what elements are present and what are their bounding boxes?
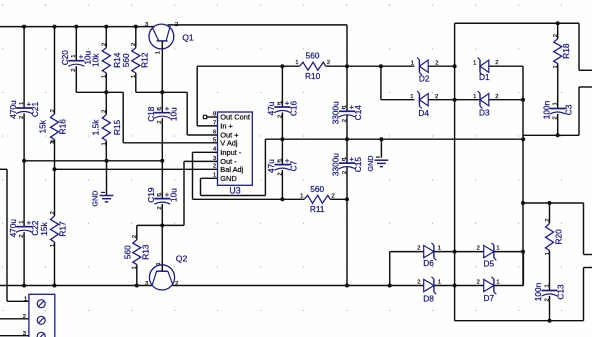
junction y92.3 / R14 bottom R15 top xyxy=(104,90,108,94)
resistor R17 xyxy=(51,216,59,242)
svg-text:2: 2 xyxy=(132,235,138,238)
resistor R16 xyxy=(51,114,59,140)
svg-text:C21: C21 xyxy=(30,102,40,118)
svg-text:1: 1 xyxy=(496,280,499,286)
resistor R14 xyxy=(102,48,110,73)
svg-text:D5: D5 xyxy=(483,259,494,269)
svg-text:1: 1 xyxy=(71,54,77,57)
resistor R10 xyxy=(300,62,326,70)
svg-text:1: 1 xyxy=(545,252,551,255)
svg-text:1: 1 xyxy=(438,246,441,252)
svg-text:1: 1 xyxy=(102,142,108,145)
svg-text:2: 2 xyxy=(277,115,283,118)
svg-text:2: 2 xyxy=(545,219,551,222)
svg-text:1: 1 xyxy=(213,173,216,179)
svg-text:R12: R12 xyxy=(140,52,150,68)
svg-text:2: 2 xyxy=(157,206,163,209)
junction bottom rail / C22 xyxy=(22,284,26,288)
wire C20/R14 row y=92.3 xyxy=(76,91,123,93)
junction y92.3 / Q1 emitter column xyxy=(160,90,164,94)
wire Input- line y=199.3 to R11 xyxy=(193,198,305,200)
svg-text:GND: GND xyxy=(90,191,99,207)
junction Bal-Adj line / R16-R17 column xyxy=(53,167,57,171)
wire top rail left segment xyxy=(0,26,154,28)
junction bottom rail / R17 xyxy=(53,284,57,288)
svg-text:1: 1 xyxy=(102,75,108,78)
wire R12 to Q1 emitter row y=92.3 xyxy=(136,91,187,93)
junction bottom rail / R13 xyxy=(135,284,139,288)
svg-text:1: 1 xyxy=(473,60,476,66)
svg-text:R15: R15 xyxy=(112,120,122,136)
resistor R18 xyxy=(554,39,562,64)
svg-text:1: 1 xyxy=(50,244,56,247)
svg-text:1: 1 xyxy=(157,106,163,109)
wire ground symbol drop xyxy=(380,139,382,158)
junction y23.25 / R18 top xyxy=(556,21,560,25)
svg-text:2: 2 xyxy=(175,281,178,287)
svg-text:2: 2 xyxy=(477,246,480,252)
svg-text:C7: C7 xyxy=(288,160,298,171)
svg-text:10u: 10u xyxy=(168,107,178,121)
svg-text:1: 1 xyxy=(132,266,138,269)
transistor Q2 xyxy=(149,265,174,290)
junction mid rail / C18-C19 xyxy=(160,159,164,163)
svg-text:1: 1 xyxy=(553,102,559,105)
diode D3 xyxy=(479,93,481,106)
svg-text:2: 2 xyxy=(327,60,330,66)
svg-text:5: 5 xyxy=(213,137,216,143)
wire bottom rail right of Q2 (D8 row) xyxy=(172,285,423,287)
svg-text:3: 3 xyxy=(23,331,26,337)
svg-text:470u: 470u xyxy=(8,100,18,119)
svg-text:V Adj: V Adj xyxy=(220,139,238,148)
capacitor C14 xyxy=(339,110,355,112)
svg-text:C19: C19 xyxy=(146,187,156,203)
wire connector pin2 xyxy=(0,318,29,320)
svg-text:D3: D3 xyxy=(479,107,490,117)
wire right-edge stub (bottom channel lower) xyxy=(584,267,592,269)
diode D5 xyxy=(493,245,495,258)
svg-text:1: 1 xyxy=(19,220,25,223)
wire vertical x=523 (right main column) xyxy=(522,66,524,285)
svg-text:6: 6 xyxy=(213,129,216,135)
junction top rail / C20 xyxy=(74,25,78,29)
svg-text:10u: 10u xyxy=(168,188,178,202)
svg-text:C22: C22 xyxy=(30,220,40,236)
wire D6 row y=251.6 xyxy=(390,251,424,253)
svg-text:2: 2 xyxy=(277,172,283,175)
transistor Q1 xyxy=(149,24,174,49)
junction GND row / C16 bottom xyxy=(280,137,284,141)
svg-text:1: 1 xyxy=(473,94,476,100)
junction top rail / R16 xyxy=(53,25,57,29)
svg-text:2: 2 xyxy=(495,60,498,66)
wire C20 column x=76.3 xyxy=(75,27,77,61)
wire right-edge stub lower / C3 bottom line xyxy=(579,86,592,88)
svg-text:1.5k: 1.5k xyxy=(91,119,101,136)
wire R16/R17 column x=54.5 xyxy=(54,27,56,114)
wire R20-C13 branch xyxy=(549,203,551,223)
resistor R12 xyxy=(132,48,140,73)
U3 pin 8 no-connect square xyxy=(203,115,206,118)
junction mid rail / C21-C22 xyxy=(22,159,26,163)
junction D4 row / x454.6 xyxy=(453,98,457,102)
capacitor C19 xyxy=(154,198,170,200)
capacitor C21 xyxy=(16,107,32,109)
svg-text:Q1: Q1 xyxy=(182,33,194,43)
junction x347 / bottom rail xyxy=(345,284,349,288)
svg-text:2: 2 xyxy=(19,116,25,119)
svg-text:3: 3 xyxy=(213,156,216,162)
svg-text:C18: C18 xyxy=(146,106,156,122)
capacitor C15 xyxy=(339,162,355,164)
junction Input- line / C7 bottom xyxy=(280,197,284,201)
wire U3 pin1 stub and GND loop xyxy=(201,177,218,179)
svg-text:470u: 470u xyxy=(8,219,18,238)
svg-text:2: 2 xyxy=(553,34,559,37)
wire U3 pin6 riser xyxy=(186,92,188,135)
wire U3 pin4 drop x=192.5 xyxy=(192,152,194,199)
junction x347 / GND net row xyxy=(345,137,349,141)
svg-text:1: 1 xyxy=(157,192,163,195)
junction bottom rail / D6 drop xyxy=(388,284,392,288)
wire V-Adj drop x=123.2 xyxy=(122,92,124,143)
wire connector pin3 xyxy=(0,335,29,337)
capacitor C16 xyxy=(274,106,290,108)
svg-text:2: 2 xyxy=(23,314,26,320)
junction x454.6 / D6 row xyxy=(453,250,457,254)
diode D1 xyxy=(479,60,481,73)
junction R20 row / R20 top xyxy=(548,201,552,205)
svg-text:GND: GND xyxy=(366,156,375,172)
wire D4 to D3 xyxy=(428,99,479,101)
capacitor C22 xyxy=(16,226,32,228)
wire R12 column xyxy=(135,27,137,48)
svg-text:1: 1 xyxy=(342,157,348,160)
svg-text:560: 560 xyxy=(310,184,324,194)
junction mid rail / R15-ground xyxy=(105,159,109,163)
resistor R11 xyxy=(304,195,330,203)
wire Out- line y=225.4 xyxy=(137,224,184,226)
wire Q1 emitter / C18 / C19 column x=162.3 xyxy=(161,49,163,113)
svg-text:1: 1 xyxy=(411,60,414,66)
wire D7 right riser to D5 xyxy=(522,252,524,286)
resistor R13 xyxy=(133,240,141,265)
svg-text:1: 1 xyxy=(19,102,25,105)
svg-text:Input -: Input - xyxy=(220,148,241,157)
junction GND row / x523 xyxy=(521,137,525,141)
svg-text:R16: R16 xyxy=(58,119,68,135)
wire R18 branch xyxy=(557,23,559,39)
diode D2 xyxy=(418,60,420,73)
junction GND row / ground symbol drop xyxy=(379,137,383,141)
wire mid rail y=160.8 (GND rail) xyxy=(24,160,162,162)
wire C21/C22 column x=24.1 xyxy=(23,27,25,108)
svg-text:D4: D4 xyxy=(418,108,429,118)
diode D6 xyxy=(433,245,435,258)
junction C3 bottom line / R18-C3 column xyxy=(556,133,560,137)
svg-text:2: 2 xyxy=(71,68,77,71)
wire R14 column xyxy=(105,27,107,48)
wire R15 column xyxy=(105,92,107,114)
svg-text:D6: D6 xyxy=(423,258,434,268)
svg-text:D1: D1 xyxy=(479,72,490,82)
svg-text:Q2: Q2 xyxy=(176,253,188,263)
svg-text:2: 2 xyxy=(417,246,420,252)
svg-text:GND: GND xyxy=(220,174,236,183)
svg-text:1: 1 xyxy=(277,158,283,161)
svg-text:2: 2 xyxy=(157,120,163,123)
svg-text:2: 2 xyxy=(544,298,550,301)
resistor R15 xyxy=(102,115,110,141)
junction x454.6 / bottom rail xyxy=(453,284,457,288)
capacitor C7 xyxy=(274,164,290,166)
wire U3 pin3 drop x=184 xyxy=(183,161,185,225)
svg-text:2: 2 xyxy=(175,22,178,28)
svg-text:560: 560 xyxy=(121,53,131,67)
svg-text:D2: D2 xyxy=(419,74,430,84)
capacitor C3 xyxy=(550,108,566,110)
wire U3 pin7 riser xyxy=(196,66,198,126)
svg-text:2: 2 xyxy=(342,119,348,122)
svg-text:47u: 47u xyxy=(266,159,276,173)
svg-text:2: 2 xyxy=(435,94,438,100)
wire D4 branch from D2 row xyxy=(380,66,382,100)
wire Bal-Adj line y=169.3 xyxy=(55,168,218,170)
wire D6 row drop to bottom rail xyxy=(389,252,391,286)
svg-text:2: 2 xyxy=(435,60,438,66)
svg-text:2: 2 xyxy=(102,110,108,113)
svg-text:15k: 15k xyxy=(38,119,48,133)
resistor R20 xyxy=(546,223,554,250)
svg-text:100n: 100n xyxy=(541,100,551,119)
junction D2 row / C16 top xyxy=(280,64,284,68)
diode D8 xyxy=(433,279,435,292)
wire R20 row y=203 xyxy=(523,202,584,204)
svg-text:1: 1 xyxy=(496,246,499,252)
wire R11 right to x347 xyxy=(330,198,347,200)
svg-text:560: 560 xyxy=(123,245,133,259)
svg-text:7: 7 xyxy=(213,120,216,126)
junction D3 right / x523 xyxy=(521,98,525,102)
svg-text:1: 1 xyxy=(544,284,550,287)
op-amp regulator U3 xyxy=(218,112,253,185)
svg-text:3300u: 3300u xyxy=(331,153,341,176)
wire vertical x=454.6 (bridge mid column) xyxy=(454,23,456,320)
svg-text:1: 1 xyxy=(295,60,298,66)
svg-text:2: 2 xyxy=(50,211,56,214)
svg-text:1: 1 xyxy=(553,65,559,68)
svg-text:2: 2 xyxy=(417,280,420,286)
wire V-Adj line to U3 pin5 xyxy=(123,142,217,144)
svg-text:C16: C16 xyxy=(288,101,298,117)
svg-text:2: 2 xyxy=(131,43,137,46)
svg-text:560: 560 xyxy=(306,51,320,61)
svg-text:100n: 100n xyxy=(533,282,543,301)
svg-text:C13: C13 xyxy=(556,284,566,300)
svg-text:10u: 10u xyxy=(82,50,92,64)
wire vertical x=347 (C14/C15 column) xyxy=(346,25,348,111)
wire U3 pin3 stub xyxy=(184,160,218,162)
svg-text:1: 1 xyxy=(342,105,348,108)
svg-text:In +: In + xyxy=(220,122,233,131)
wire right-edge stub (bottom channel upper) xyxy=(583,203,585,255)
svg-text:D8: D8 xyxy=(423,294,434,304)
junction x523 / D5 right xyxy=(521,250,525,254)
svg-text:1: 1 xyxy=(24,296,27,302)
junction top rail / R12 xyxy=(134,25,138,29)
junction bottom return / C13 bottom xyxy=(548,319,552,323)
wire GND net row y=139.2 xyxy=(265,138,523,140)
svg-text:2: 2 xyxy=(102,43,108,46)
junction top rail / R14 xyxy=(104,25,108,29)
wire D2 row y=66.2 xyxy=(197,65,299,67)
connector J1 xyxy=(29,294,55,337)
wire external input to connector pin1 xyxy=(0,168,7,170)
svg-text:3: 3 xyxy=(145,281,148,287)
wire C16-C7 column x=282.4 xyxy=(281,66,283,107)
ground symbol xyxy=(100,195,114,197)
svg-text:1: 1 xyxy=(300,193,303,199)
svg-text:3300u: 3300u xyxy=(331,101,341,124)
svg-text:Out Cont: Out Cont xyxy=(220,113,250,122)
junction x523 / R20 row xyxy=(521,201,525,205)
wire R16 bottom pin tick xyxy=(51,140,55,142)
svg-text:C3: C3 xyxy=(564,104,574,115)
junction x347 / R11 row xyxy=(345,197,349,201)
junction D2 row / D1 left xyxy=(453,64,457,68)
svg-text:D7: D7 xyxy=(483,293,494,303)
diode D4 xyxy=(418,93,420,106)
svg-text:C14: C14 xyxy=(353,105,363,121)
svg-text:Bal Adj: Bal Adj xyxy=(220,165,243,174)
svg-text:1: 1 xyxy=(156,51,162,54)
svg-text:2: 2 xyxy=(19,234,25,237)
wire bottom rail left of Q2 xyxy=(0,285,152,287)
wire top rail right segment from Q1 to corner xyxy=(168,24,348,26)
svg-text:2: 2 xyxy=(553,116,559,119)
wire bottom channel return y=320.7 xyxy=(455,320,584,322)
svg-text:2: 2 xyxy=(50,109,56,112)
svg-text:R20: R20 xyxy=(553,229,563,245)
svg-text:R10: R10 xyxy=(305,71,321,81)
wire U3 pin5 stub xyxy=(193,151,218,153)
svg-text:2: 2 xyxy=(331,193,334,199)
svg-text:2: 2 xyxy=(477,280,480,286)
wire D3 right xyxy=(489,99,523,101)
ground symbol xyxy=(375,159,389,161)
junction x162.3 / Out- line xyxy=(160,223,164,227)
junction D2 row / D4 branch xyxy=(379,64,383,68)
junction x347 / D2 row xyxy=(345,64,349,68)
capacitor C13 xyxy=(542,290,558,292)
svg-text:47u: 47u xyxy=(266,101,276,115)
svg-text:2: 2 xyxy=(495,94,498,100)
svg-text:R11: R11 xyxy=(310,204,325,214)
svg-text:R13: R13 xyxy=(141,244,151,260)
svg-text:C20: C20 xyxy=(60,50,70,66)
svg-text:1: 1 xyxy=(438,280,441,286)
svg-text:3: 3 xyxy=(145,22,148,28)
svg-text:1: 1 xyxy=(277,101,283,104)
wire top channel y=23.25 xyxy=(455,22,579,24)
junction top rail / C21 xyxy=(22,25,26,29)
svg-text:15k: 15k xyxy=(39,221,49,235)
svg-text:1: 1 xyxy=(156,262,162,265)
svg-text:R18: R18 xyxy=(561,43,571,59)
svg-text:C15: C15 xyxy=(353,157,363,173)
wire R15-ground drop xyxy=(106,161,108,196)
capacitor C18 xyxy=(154,112,170,114)
svg-text:1: 1 xyxy=(131,75,137,78)
svg-text:1: 1 xyxy=(50,141,56,144)
wire right-edge stub upper xyxy=(578,23,580,70)
svg-text:1: 1 xyxy=(410,94,413,100)
svg-text:2: 2 xyxy=(213,164,216,170)
svg-text:U3: U3 xyxy=(229,186,240,196)
wire R13 branch xyxy=(136,225,138,239)
svg-text:2: 2 xyxy=(342,171,348,174)
diode D7 xyxy=(493,279,495,292)
capacitor C20 xyxy=(68,60,84,62)
svg-text:R17: R17 xyxy=(57,221,67,237)
